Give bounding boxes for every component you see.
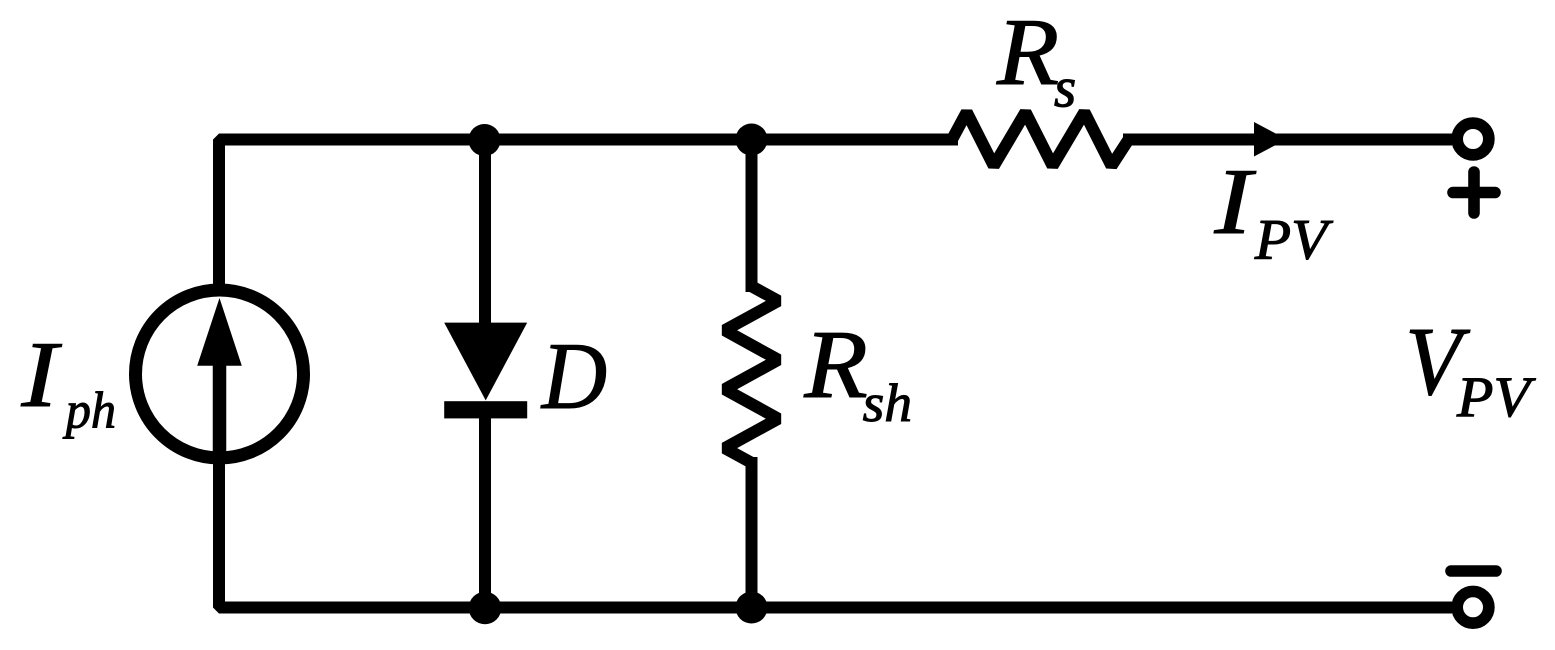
svg-text:PV: PV: [1456, 365, 1536, 428]
svg-text:ph: ph: [63, 382, 116, 440]
svg-text:R: R: [996, 0, 1059, 105]
svg-text:I: I: [20, 322, 62, 427]
svg-text:I: I: [1213, 150, 1256, 254]
svg-text:PV: PV: [1254, 208, 1334, 272]
svg-text:sh: sh: [863, 372, 912, 432]
svg-text:D: D: [540, 324, 607, 429]
svg-text:s: s: [1054, 57, 1076, 120]
svg-text:R: R: [803, 310, 867, 419]
